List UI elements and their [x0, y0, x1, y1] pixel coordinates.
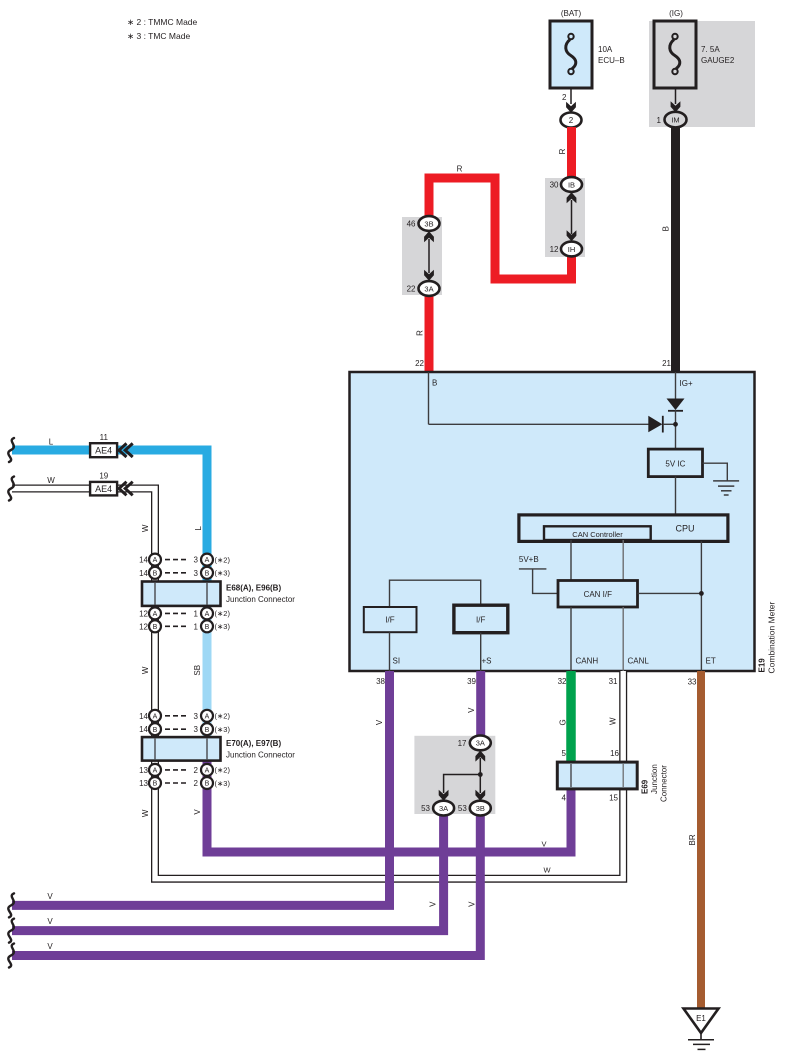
svg-text:11: 11 — [100, 433, 109, 442]
svg-text:R: R — [415, 330, 424, 336]
combination meter E19 box — [350, 372, 755, 671]
svg-text:V: V — [468, 901, 477, 907]
svg-text:Junction: Junction — [650, 764, 659, 794]
wire break L — [8, 438, 14, 462]
svg-text:38: 38 — [376, 677, 385, 686]
amplifier I/F 1 — [364, 607, 417, 632]
svg-text:CPU: CPU — [675, 524, 694, 534]
junction connector E69 box — [557, 762, 637, 789]
svg-text:13: 13 — [139, 766, 148, 775]
svg-text:53: 53 — [458, 804, 467, 813]
svg-text:GAUGE2: GAUGE2 — [701, 56, 735, 65]
wire V below 53-3B to break row3 — [12, 815, 480, 956]
svg-text:31: 31 — [609, 677, 618, 686]
svg-text:Combination Meter: Combination Meter — [767, 602, 777, 674]
svg-text:33: 33 — [688, 678, 697, 687]
wire break V row1 — [8, 893, 14, 917]
junction connector E70 box — [142, 737, 221, 761]
svg-text:B: B — [153, 624, 158, 631]
svg-text:A: A — [205, 557, 210, 564]
wire SB from E68 to E70 — [203, 606, 212, 737]
svg-text:3: 3 — [194, 556, 199, 565]
svg-text:1: 1 — [657, 116, 662, 125]
wire: I/F2 to +S pin — [480, 633, 482, 671]
svg-text:B: B — [153, 570, 158, 577]
wire: CAN I/F to CPU branch — [638, 592, 702, 594]
junction row 13A-2A (∗2) — [139, 764, 230, 776]
wire: CANL below CAN I/F — [622, 607, 624, 671]
svg-text:B: B — [153, 727, 158, 734]
wire break V row3 — [8, 944, 14, 968]
connector oval 3A — [419, 281, 440, 296]
wire W (white) from E70 down right up to E69 pin 15 — [155, 761, 623, 879]
svg-text:+S: +S — [482, 657, 492, 666]
junction row 13B-2B (∗3) — [139, 777, 230, 789]
svg-text:(∗3): (∗3) — [215, 725, 231, 734]
svg-text:W: W — [608, 717, 617, 725]
junction dot diodes — [673, 422, 678, 427]
svg-text:B: B — [432, 379, 437, 388]
wire BR pin33 ET down to E1 — [697, 671, 705, 1009]
CAN I/F box — [558, 581, 638, 608]
diode D2 (B right) — [648, 416, 662, 433]
gray panel behind 3B/3A junction — [402, 217, 442, 295]
fuse ECU-B element symbol — [566, 34, 576, 74]
svg-text:19: 19 — [99, 472, 108, 481]
svg-text:IH: IH — [568, 245, 576, 254]
junction row 12A-1A (∗2) — [139, 607, 230, 619]
svg-text:A: A — [153, 713, 158, 720]
svg-text:A: A — [205, 713, 210, 720]
svg-text:1: 1 — [194, 609, 199, 618]
wire: 5V IC to internal ground — [703, 463, 728, 481]
wire V below 53-3A to break row2 — [12, 815, 444, 931]
wire from 17-3A to branch dot — [479, 758, 481, 793]
svg-text:A: A — [205, 611, 210, 618]
svg-text:SB: SB — [193, 665, 202, 676]
regulator 5V IC — [648, 449, 702, 477]
svg-text:14: 14 — [139, 556, 148, 565]
svg-text:2: 2 — [194, 766, 199, 775]
svg-text:21: 21 — [662, 359, 671, 368]
svg-text:12: 12 — [550, 245, 559, 254]
svg-text:3: 3 — [194, 712, 199, 721]
svg-text:W: W — [543, 865, 551, 874]
svg-text:V: V — [375, 719, 384, 725]
svg-text:10A: 10A — [598, 45, 613, 54]
svg-text:22: 22 — [407, 285, 416, 294]
wire: fuse GAUGE2 to connector IM — [675, 88, 677, 104]
connector oval IB — [561, 177, 582, 192]
svg-text:CAN I/F: CAN I/F — [584, 590, 613, 599]
svg-text:L: L — [49, 437, 54, 446]
wire: pin21 IG+ entry down — [675, 372, 677, 399]
svg-text:14: 14 — [139, 569, 148, 578]
svg-text:53: 53 — [421, 804, 430, 813]
svg-text:E19: E19 — [758, 658, 767, 673]
svg-text:CANL: CANL — [628, 657, 650, 666]
wire: fuse ECU-B to connector 2 — [570, 88, 572, 104]
svg-text:IB: IB — [568, 180, 575, 189]
svg-text:ECU–B: ECU–B — [598, 56, 625, 65]
junction row 14A-3A (∗2) — [139, 710, 230, 722]
wire: CAN controller to CAN I/F (CANH) — [570, 540, 572, 581]
wire: I/F bridge — [390, 580, 481, 607]
svg-text:A: A — [205, 768, 210, 775]
wire: pin22 B entry down — [428, 372, 430, 424]
wire W between E68 and E70 — [151, 606, 159, 737]
svg-text:∗ 2 : TMMC Made: ∗ 2 : TMMC Made — [127, 17, 198, 27]
svg-text:B: B — [661, 226, 670, 231]
wire: red R from IH down, left, up, left, down to 3B — [429, 178, 572, 279]
svg-text:39: 39 — [467, 677, 476, 686]
junction row 14A-3A (∗2) — [139, 554, 230, 566]
svg-text:V: V — [47, 917, 53, 926]
svg-text:3B: 3B — [476, 804, 485, 813]
svg-text:B: B — [205, 727, 210, 734]
svg-text:3A: 3A — [424, 284, 433, 293]
arrow into connector IM — [671, 101, 681, 112]
connector oval 53-3B — [470, 801, 491, 816]
wire V pin38 SI down-left to break — [12, 671, 390, 905]
svg-text:(∗2): (∗2) — [215, 555, 231, 564]
svg-text:V: V — [541, 839, 546, 848]
arrow down into 53-3B — [475, 790, 485, 801]
svg-text:R: R — [558, 148, 567, 154]
wire: 5V IC to CPU — [675, 477, 677, 515]
svg-text:(∗2): (∗2) — [215, 712, 231, 721]
svg-text:ET: ET — [706, 657, 716, 666]
svg-text:46: 46 — [407, 220, 416, 229]
chevrons AE4 11 — [119, 443, 133, 457]
junction row 14B-3B (∗3) — [139, 723, 230, 735]
svg-text:B: B — [153, 781, 158, 788]
wire: black B from IM to combination meter pin 21 — [671, 127, 680, 372]
svg-text:IG+: IG+ — [680, 379, 693, 388]
svg-text:5V IC: 5V IC — [665, 459, 685, 468]
svg-text:2: 2 — [569, 116, 574, 125]
svg-text:V: V — [193, 809, 202, 815]
junction row 14B-3B (∗3) — [139, 567, 230, 579]
connector oval IH — [561, 242, 582, 257]
CPU box — [519, 515, 728, 542]
svg-text:(∗3): (∗3) — [215, 779, 231, 788]
svg-text:W: W — [141, 666, 150, 674]
arrow down into 3A — [424, 270, 434, 281]
svg-text:3: 3 — [194, 725, 199, 734]
wire V pin39 +S down to 17-3A — [476, 671, 485, 736]
gray panel behind IG fuse — [649, 21, 755, 127]
svg-text:A: A — [153, 611, 158, 618]
svg-text:V: V — [428, 901, 437, 907]
svg-text:1: 1 — [194, 622, 199, 631]
junction dot ET branch — [699, 591, 704, 596]
svg-text:IM: IM — [671, 115, 679, 124]
arrow up into 17-3A — [475, 751, 485, 762]
svg-text:5V+B: 5V+B — [519, 555, 539, 564]
svg-text:3B: 3B — [424, 219, 433, 228]
svg-text:B: B — [205, 781, 210, 788]
svg-text:16: 16 — [610, 749, 619, 758]
arrow down into IH — [567, 230, 577, 241]
svg-text:I/F: I/F — [476, 615, 485, 624]
wire: red R from connector 2 to IB — [567, 127, 576, 184]
svg-text:3A: 3A — [476, 739, 485, 748]
wire G pin32 CANH down to E69 pin5 — [566, 671, 576, 762]
svg-text:2: 2 — [562, 93, 567, 102]
fuse ECU-B body — [550, 21, 592, 88]
svg-text:2: 2 — [194, 779, 199, 788]
svg-text:G: G — [558, 719, 567, 725]
arrow down into 53-3A — [439, 790, 449, 801]
wire between IB and IH — [571, 200, 573, 234]
CAN Controller box — [544, 526, 651, 540]
svg-text:V: V — [47, 892, 53, 901]
svg-text:14: 14 — [139, 712, 148, 721]
wire: CPU down to ET — [700, 541, 702, 671]
svg-text:BR: BR — [688, 834, 697, 845]
arrow into connector 2 — [566, 102, 576, 113]
svg-text:12: 12 — [139, 622, 148, 631]
amplifier I/F 2 — [454, 605, 508, 633]
arrow up into IB — [567, 192, 577, 203]
svg-text:E70(A), E97(B): E70(A), E97(B) — [226, 739, 281, 748]
svg-text:12: 12 — [139, 609, 148, 618]
svg-text:E69: E69 — [641, 779, 650, 794]
fuse GAUGE2 element symbol — [670, 34, 680, 74]
svg-text:(BAT): (BAT) — [561, 9, 582, 18]
svg-text:CAN Controller: CAN Controller — [572, 530, 623, 539]
svg-text:(∗3): (∗3) — [215, 622, 231, 631]
connector oval 53-3A — [433, 801, 454, 816]
svg-text:I/F: I/F — [385, 616, 394, 625]
wire: red R from 3A to combination meter pin 22 — [425, 288, 434, 372]
svg-text:SI: SI — [393, 657, 401, 666]
wire L (blue) from AE4 11 to E68 — [12, 450, 207, 582]
svg-text:W: W — [141, 524, 150, 532]
svg-text:W: W — [141, 809, 150, 817]
fuse GAUGE2 body — [654, 21, 696, 88]
svg-text:7. 5A: 7. 5A — [701, 45, 720, 54]
svg-text:B: B — [205, 570, 210, 577]
ground E1 — [684, 1009, 719, 1034]
svg-text:∗ 3 : TMC Made: ∗ 3 : TMC Made — [127, 31, 190, 41]
wire W (white) from AE4 19 to E68 — [12, 489, 155, 582]
junction connector E68 box — [142, 582, 221, 606]
connector AE4 (19) — [90, 482, 117, 496]
svg-text:13: 13 — [139, 779, 148, 788]
svg-text:15: 15 — [609, 794, 618, 803]
wire break V row2 — [8, 919, 14, 943]
svg-text:3: 3 — [194, 569, 199, 578]
svg-text:Junction Connector: Junction Connector — [226, 751, 295, 760]
svg-text:22: 22 — [415, 359, 424, 368]
wire: B horizontal to diode — [429, 423, 650, 425]
wire: CAN controller to CAN I/F (CANL) — [622, 540, 624, 581]
svg-text:(∗2): (∗2) — [215, 609, 231, 618]
svg-text:CANH: CANH — [576, 657, 599, 666]
connector oval 17-3A — [470, 736, 491, 751]
connector oval IM — [665, 112, 687, 128]
gray panel behind IB/IH junction — [545, 178, 585, 257]
svg-text:AE4: AE4 — [95, 446, 112, 456]
svg-text:32: 32 — [558, 677, 567, 686]
junction dot 3A branch — [478, 772, 483, 777]
svg-text:W: W — [47, 476, 55, 485]
wire V (purple) from E70 down right up to E69 pin 4 — [207, 761, 571, 852]
svg-text:V: V — [467, 707, 476, 713]
arrow up into 3B — [424, 231, 434, 242]
svg-text:B: B — [205, 624, 210, 631]
diode D1 (IG+ down) — [667, 399, 685, 411]
svg-text:4: 4 — [562, 794, 567, 803]
svg-text:5: 5 — [562, 749, 567, 758]
svg-text:30: 30 — [550, 181, 559, 190]
svg-text:E68(A), E96(B): E68(A), E96(B) — [226, 584, 281, 593]
wire between 3B and 3A — [428, 239, 430, 273]
svg-text:(IG): (IG) — [669, 9, 683, 18]
svg-text:(∗2): (∗2) — [215, 766, 231, 775]
svg-text:A: A — [153, 768, 158, 775]
wire: I/F1 to SI pin — [389, 632, 391, 671]
connector oval 2 — [561, 113, 582, 128]
connector AE4 (11) — [90, 443, 117, 457]
junction row 12B-1B (∗3) — [139, 620, 230, 632]
connector oval 3B — [419, 216, 440, 231]
svg-text:L: L — [194, 526, 203, 531]
chevrons AE4 19 — [119, 482, 133, 496]
svg-text:A: A — [153, 557, 158, 564]
svg-text:(∗3): (∗3) — [215, 569, 231, 578]
wire break W — [8, 477, 14, 501]
svg-text:Connector: Connector — [660, 765, 669, 802]
svg-text:17: 17 — [458, 739, 467, 748]
branch wire to 53-3A — [444, 775, 481, 794]
wire: CANH below CAN I/F — [570, 607, 572, 671]
svg-text:3A: 3A — [439, 804, 448, 813]
svg-text:V: V — [47, 942, 53, 951]
gray panel behind 17-3A/53-3A/53-3B junction — [414, 736, 495, 814]
svg-text:Junction Connector: Junction Connector — [226, 595, 295, 604]
svg-text:R: R — [457, 165, 463, 174]
wire: 5V+B to CAN I/F — [533, 569, 558, 594]
svg-text:E1: E1 — [696, 1014, 706, 1023]
internal ground symbol — [713, 481, 739, 495]
wire W pin31 CANL down to E69 pin16 — [619, 671, 627, 762]
svg-text:AE4: AE4 — [95, 484, 112, 494]
svg-text:14: 14 — [139, 725, 148, 734]
wire: diode outputs join — [663, 423, 676, 425]
